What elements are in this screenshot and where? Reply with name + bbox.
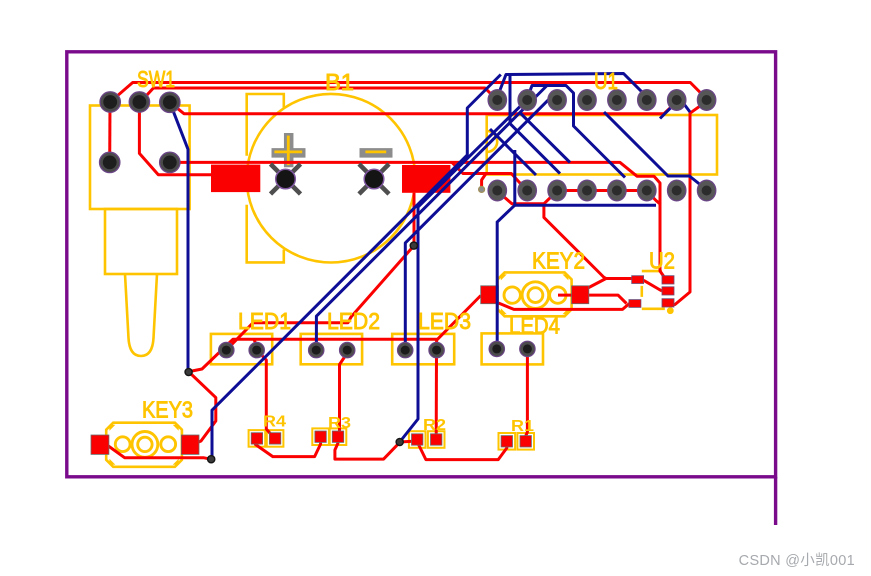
LED3 outline — [392, 334, 454, 364]
svg-text:U1: U1 — [594, 68, 618, 94]
resistor R3 pad brackets — [312, 428, 346, 445]
wire red LED2 right pad to R3 right pad — [338, 351, 347, 435]
wire red junction branch to U2 left top pad — [544, 204, 634, 279]
label U2 — [649, 248, 675, 274]
wire red bus3 SW1 pad3 to U1 left edge — [170, 102, 676, 113]
battery B1 left pad — [211, 165, 260, 193]
wire red KEY2 right pad lateral to U2 left bottom pad — [558, 295, 627, 303]
button KEY2 left pad — [481, 286, 499, 304]
battery B1 right pad — [402, 165, 450, 193]
wire red U2 left top pad to right mid pad — [644, 280, 662, 291]
svg-text:KEY2: KEY2 — [532, 248, 585, 274]
button KEY3 left pad — [91, 435, 109, 454]
wire blue U1 body diagonal 2 arch foot — [510, 75, 560, 174]
wire red U1 bottom pad6 jog — [647, 191, 660, 204]
resistor R4 pad brackets — [249, 430, 284, 447]
board outline (purple border) — [67, 52, 776, 525]
wire blue bundle U1 pad3 to LED3 left pad — [405, 96, 552, 350]
wire red R2 left pad jog to R1 left pad — [419, 443, 507, 460]
wire blue SW1 pad3 to via dot188 — [170, 102, 188, 371]
wire blue U1 body diagonal 1 — [490, 129, 536, 175]
wire red SW1 pad2 to pad5 — [139, 102, 215, 175]
button KEY3 outline — [106, 423, 182, 467]
label R2 — [423, 417, 446, 434]
IC U1 pads bottom row 9-16 — [488, 180, 716, 201]
LED1 outline — [211, 334, 272, 364]
wire red B1 right pad to via dot414 to LED1 right pad — [226, 193, 414, 350]
wire red LED3 right pad to R2 right pad — [435, 350, 438, 439]
switch SW1 body outline — [90, 106, 190, 357]
via dot401 junction — [396, 438, 403, 445]
battery B1 negative terminal — [359, 164, 389, 194]
label KEY3 — [142, 397, 193, 423]
svg-text:R2: R2 — [423, 417, 446, 434]
resistor R1 pads — [501, 436, 531, 447]
wire red stub LED1 left pad — [254, 339, 258, 350]
via dot211 junction — [208, 456, 215, 463]
button KEY3 right pad — [181, 435, 199, 454]
LED2 outline — [301, 334, 362, 364]
IC U1 pads top row 1-8 — [488, 90, 716, 111]
label LED3 — [418, 308, 471, 334]
label KEY2 — [532, 248, 585, 274]
resistor R4 pads — [251, 433, 281, 444]
wire red dot188 to KEY3 right pad — [190, 373, 216, 443]
svg-text:B1: B1 — [325, 69, 354, 95]
wire blue U1 bottom pad2 to LED4 left pad — [497, 150, 656, 349]
label R3 — [328, 415, 351, 432]
wire blue arch over U1 top pads 2-3 into body — [527, 86, 625, 178]
via near U1 bottom pad1 — [479, 186, 485, 192]
wire blue stub U1 top pad7 — [681, 100, 690, 112]
wire red via dot401 to R2 left pad — [400, 441, 418, 442]
svg-text:SW1: SW1 — [137, 66, 175, 92]
resistor R2 pad brackets — [409, 431, 445, 448]
svg-text:U2: U2 — [649, 248, 675, 274]
wire red LED1 right pad to R4 right pad — [257, 350, 275, 438]
wire red KEY2 right pad up to junction606 — [585, 279, 606, 290]
wire red KEY3 left pad bottom to dot211 — [107, 445, 211, 459]
wire blue bundle U1 pad2 to LED2 left pad — [316, 86, 547, 351]
battery B1 plus mark — [272, 133, 306, 167]
svg-text:LED2: LED2 — [327, 308, 380, 334]
wire blue U1 body diagonal 3 — [519, 112, 570, 163]
svg-text:LED1: LED1 — [238, 308, 291, 334]
wire blue bundle to via dot401 — [401, 101, 527, 441]
LED4 outline — [482, 333, 543, 364]
svg-text:KEY3: KEY3 — [142, 397, 193, 423]
IC U2 outline dashes — [642, 271, 665, 309]
wire blue U1 body diagonal to bottom pad7 — [604, 112, 707, 190]
label SW1 — [137, 66, 175, 92]
wire blue stub U1 top pad7 left — [660, 107, 672, 119]
LED2 pads — [309, 342, 355, 357]
svg-text:LED4: LED4 — [509, 313, 560, 339]
wire red net dot188 to LED row to KEY2 left pad — [190, 296, 481, 372]
wire red R4 left pad jog to R3 left pad — [256, 440, 321, 457]
wire red bus2 SW1 pad2 to U1 left edge to bottom pad1 — [140, 88, 492, 102]
svg-text:R3: R3 — [328, 415, 351, 432]
label LED4 — [509, 313, 560, 339]
wire red LED4 right pad to R1 right pad — [526, 349, 528, 436]
LED1 pads — [219, 342, 265, 357]
via dot188 junction — [185, 368, 192, 375]
svg-text:LED3: LED3 — [418, 308, 471, 334]
label LED2 — [327, 308, 380, 334]
wire red top bus SW1 pad1 to U1 top pad8 — [110, 83, 704, 103]
IC U1 body outline — [487, 115, 717, 175]
battery B1 positive terminal — [271, 164, 301, 194]
resistor R1 pad brackets — [499, 433, 535, 450]
wire red bus4 branch to U1 bottom pad2 — [452, 162, 527, 190]
battery holder B1 clip tabs — [247, 94, 284, 262]
battery holder B1 circle outline — [247, 94, 416, 263]
resistor R3 pads — [315, 431, 344, 442]
label U1 — [594, 68, 618, 94]
wire red main bus y162 SW1 pad5 to U2 right top — [170, 162, 665, 277]
wire red U1 bottom pad1 to pad3 under pad2 — [497, 191, 557, 204]
button KEY2 outline — [498, 272, 572, 316]
wire blue arch over U1 top pads 1-6 — [497, 74, 647, 98]
wire red SW1 pad1 to pad4 — [108, 102, 111, 162]
LED4 pads — [489, 341, 535, 356]
label LED1 — [238, 308, 291, 334]
wire red R3 right pad jog to via dot401 — [335, 440, 399, 459]
svg-text:R4: R4 — [263, 414, 286, 431]
IC U2 right pads — [662, 276, 674, 307]
via dot414 junction — [410, 242, 417, 249]
label B1 — [325, 69, 354, 95]
IC U2 left pads — [629, 276, 644, 308]
switch SW1 pads — [100, 92, 181, 173]
wire red KEY2 left pad bottom to U2 left bottom pad — [498, 303, 634, 309]
wire red stub LED3 right pad — [435, 339, 438, 350]
LED3 pads — [398, 342, 445, 357]
label R4 — [263, 414, 286, 431]
wire red U1 bottom pads 3-6 link — [558, 189, 647, 192]
wire blue bundle U1 pad1 to KEY3 via dot211 — [212, 75, 501, 459]
IC U2 pin1 dot — [667, 307, 674, 314]
svg-text:R1: R1 — [511, 418, 534, 435]
label R1 — [511, 418, 534, 435]
battery B1 minus mark — [360, 152, 393, 153]
watermark — [739, 549, 855, 570]
wire red U1 pad8 down right side to U2 pin — [671, 101, 707, 305]
button KEY2 right pad — [572, 286, 589, 304]
resistor R2 pads — [412, 434, 442, 445]
